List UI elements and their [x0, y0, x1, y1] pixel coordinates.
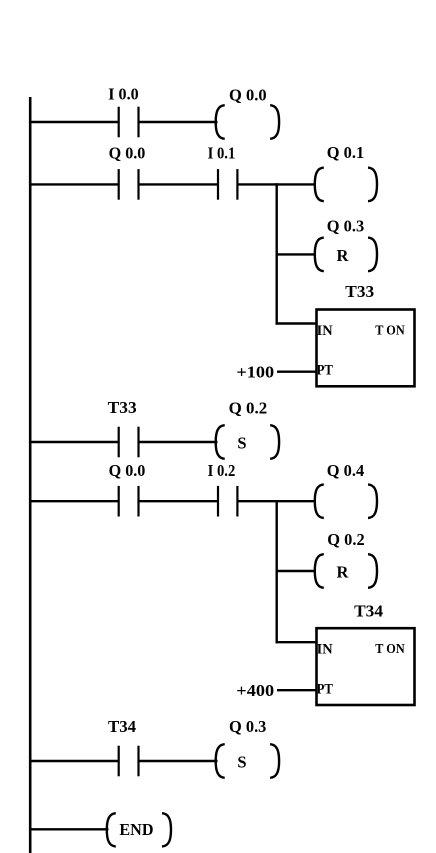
wire rung4: between contacts: [139, 500, 219, 502]
contact I0.1 (normally open): [218, 169, 237, 200]
svg-text:Q 0.3: Q 0.3: [229, 717, 266, 736]
coil Q0.2 (Reset): [315, 554, 377, 588]
svg-text:Q 0.0: Q 0.0: [229, 85, 267, 104]
coil Q0.2 (Set): [216, 425, 279, 459]
coil Q0.3 (Reset): [315, 238, 377, 272]
svg-text:Q 0.2: Q 0.2: [229, 398, 268, 417]
svg-text:IN: IN: [317, 323, 333, 339]
wire rung6: rail to END coil: [29, 828, 109, 830]
contact T33 (normally open): [119, 427, 139, 458]
wire rung3: rail to contact T33: [29, 441, 118, 443]
svg-text:T ON: T ON: [375, 642, 404, 657]
contact T34 (normally open): [119, 746, 139, 777]
wire branch to timer T33 IN: [276, 322, 318, 324]
wire rung5: contact to coil Q0.3: [139, 760, 218, 762]
svg-text:T ON: T ON: [375, 324, 404, 339]
svg-text:R: R: [337, 246, 350, 265]
svg-text:PT: PT: [317, 681, 333, 697]
coil Q0.0: [216, 105, 279, 139]
coil Q0.3 (Set): [216, 744, 279, 778]
timer box T34 TON: [317, 628, 415, 705]
wire rung2: rail to contact Q0.0: [29, 183, 118, 185]
wire rung3: contact to coil Q0.2: [139, 441, 218, 443]
svg-text:T33: T33: [345, 282, 374, 301]
svg-text:S: S: [237, 433, 246, 452]
svg-text:Q 0.3: Q 0.3: [327, 217, 364, 236]
svg-text:Q 0.2: Q 0.2: [327, 530, 364, 549]
branch junction vertical (rung2): [276, 183, 278, 324]
svg-text:Q 0.4: Q 0.4: [327, 461, 364, 480]
left power rail: [29, 97, 32, 853]
svg-text:R: R: [337, 562, 350, 581]
svg-text:+100: +100: [236, 363, 274, 382]
svg-text:Q 0.0: Q 0.0: [109, 461, 146, 480]
svg-text:T34: T34: [108, 717, 136, 736]
wire rung4: rail to contact Q0.0: [29, 500, 118, 502]
coil Q0.4: [315, 484, 377, 518]
wire rung2: contact I0.1 through junction to coil Q0.1: [237, 183, 315, 185]
wire branch to reset coil Q0.3: [276, 253, 316, 255]
svg-text:I 0.1: I 0.1: [208, 144, 236, 163]
wire rung5: rail to contact T34: [29, 760, 118, 762]
wire rung2: between contacts: [139, 183, 219, 185]
svg-text:S: S: [237, 752, 246, 771]
svg-text:PT: PT: [317, 363, 333, 379]
coil END: [107, 813, 171, 846]
svg-text:T34: T34: [354, 601, 383, 620]
svg-text:IN: IN: [317, 642, 333, 658]
svg-text:I 0.0: I 0.0: [108, 85, 138, 104]
coil Q0.1: [315, 168, 377, 202]
wire rung4: contact I0.2 through junction to coil Q0.4: [237, 500, 315, 502]
wire rung1: contact to coil Q0.0: [139, 121, 218, 123]
wire branch to reset coil Q0.2: [276, 570, 316, 572]
svg-text:Q 0.0: Q 0.0: [109, 144, 146, 163]
svg-text:+400: +400: [236, 681, 274, 700]
wire +100 to PT: [277, 371, 317, 373]
contact I0.2 (normally open): [218, 486, 237, 517]
contact Q0.0 (rung4): [119, 486, 139, 517]
wire branch to timer T34 IN: [276, 641, 318, 643]
svg-text:Q 0.1: Q 0.1: [327, 143, 364, 162]
contact Q0.0 (normally open): [119, 169, 139, 200]
contact I0.0 (normally open): [119, 107, 139, 138]
svg-text:END: END: [119, 820, 153, 839]
timer box T33 TON: [317, 310, 415, 387]
branch junction vertical (rung4): [276, 500, 278, 643]
wire +400 to PT: [277, 689, 317, 691]
svg-text:I 0.2: I 0.2: [208, 461, 236, 480]
wire rung1: rail to contact I0.0: [29, 121, 118, 123]
svg-text:T33: T33: [108, 398, 137, 417]
